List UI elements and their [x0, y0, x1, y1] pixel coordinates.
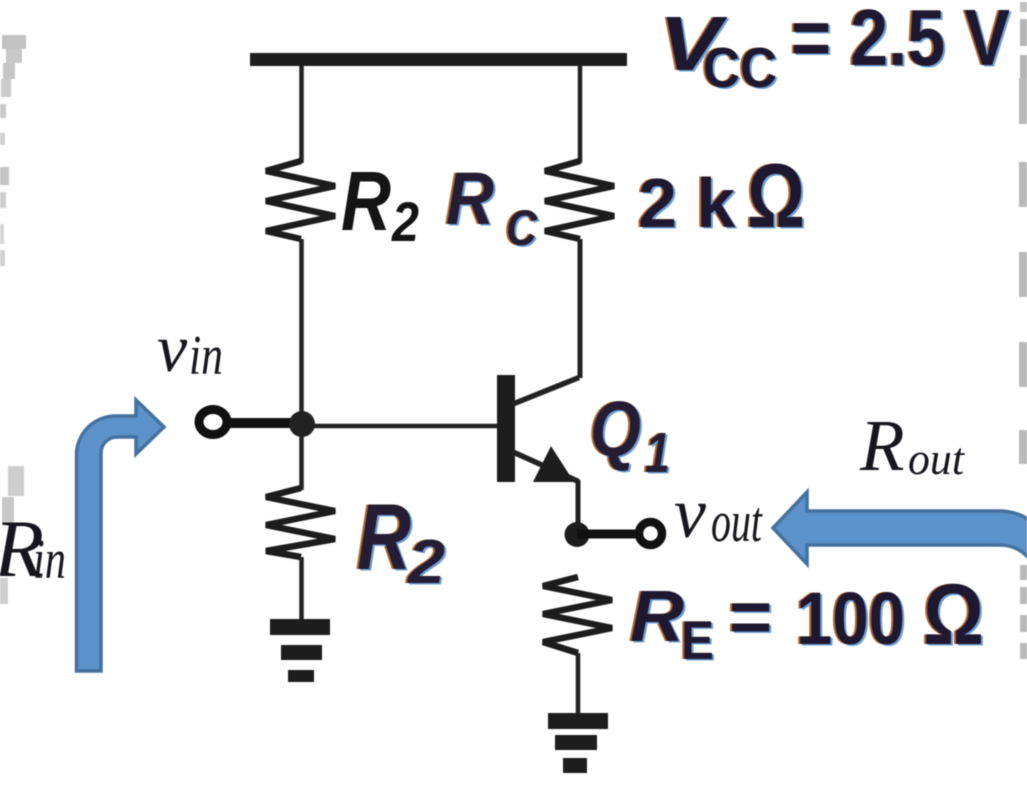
svg-text:v: v — [674, 473, 706, 553]
input terminal vin — [199, 410, 227, 435]
label Q1 — [588, 385, 672, 487]
svg-text:=: = — [729, 575, 772, 658]
transistor Q1 collector lead — [513, 378, 579, 405]
svg-text:R: R — [630, 577, 684, 657]
svg-text:E: E — [681, 609, 714, 671]
wire: vin stub — [227, 418, 302, 428]
wire: rail to RC — [578, 66, 583, 163]
resistor RE — [543, 577, 612, 653]
transistor Q1 emitter arrow — [533, 446, 574, 482]
svg-text:R: R — [859, 405, 905, 486]
transistor Q1 base bar — [497, 375, 515, 482]
resistor R2 (upper) — [266, 161, 335, 239]
svg-text:out: out — [908, 433, 965, 484]
svg-text:in: in — [189, 325, 223, 387]
node: output junction — [565, 522, 590, 547]
label Rout — [859, 405, 965, 486]
wire: vout stub — [577, 530, 640, 539]
transistor Q1 emitter lead — [513, 452, 579, 482]
wire: emitter to output node — [576, 480, 581, 535]
svg-text:in: in — [33, 529, 66, 591]
label R2 (upper) — [341, 154, 419, 253]
svg-text:2: 2 — [407, 528, 445, 597]
ground (left) — [270, 619, 330, 682]
resistor R2 (lower) — [266, 488, 335, 557]
output terminal vout — [639, 522, 662, 545]
svg-text:2: 2 — [391, 190, 419, 253]
svg-text:R: R — [357, 484, 411, 589]
label Rin — [0, 503, 66, 594]
wire: rail to R2 upper — [299, 66, 304, 163]
label RC — [444, 157, 540, 258]
label vin — [157, 310, 223, 387]
node: base junction — [289, 411, 315, 437]
svg-text:v: v — [157, 310, 188, 386]
svg-text:out: out — [711, 489, 763, 554]
svg-text:R: R — [341, 154, 391, 248]
wire: base node to R2 lower — [299, 424, 304, 490]
svg-text:C: C — [506, 200, 538, 256]
arrow Rout — [773, 492, 1027, 770]
wire: RE to ground — [576, 653, 581, 715]
svg-text:100: 100 — [796, 577, 905, 660]
resistor RC — [545, 161, 614, 239]
arrow Rin — [77, 400, 165, 671]
svg-text:2 k: 2 k — [638, 164, 735, 242]
label 2 kOhm — [636, 146, 807, 249]
ground (right) — [548, 713, 608, 773]
label RE = 100 Ohm — [628, 567, 986, 673]
svg-text:R: R — [446, 157, 494, 240]
wire: R2 lower to ground — [299, 557, 304, 621]
label vout — [674, 473, 763, 554]
svg-text:1: 1 — [645, 421, 670, 485]
label R2 (lower) — [355, 484, 447, 599]
wire: base node to Q1 base — [302, 424, 497, 429]
svg-text:= 2.5 V: = 2.5 V — [791, 0, 1010, 82]
wire: RC to collector — [578, 239, 583, 378]
wire: R2 upper to base node — [299, 239, 304, 424]
svg-text:Q: Q — [590, 385, 641, 473]
svg-text:Ω: Ω — [923, 567, 984, 663]
VCC rail — [250, 53, 627, 66]
svg-text:CC: CC — [703, 36, 777, 100]
label VCC = 2.5 V — [657, 0, 1012, 102]
svg-text:Ω: Ω — [747, 146, 805, 247]
